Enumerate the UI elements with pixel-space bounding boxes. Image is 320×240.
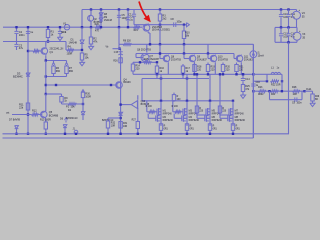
- svg-text:0R22: 0R22: [258, 94, 264, 96]
- svg-text:680: 680: [56, 70, 61, 73]
- svg-text:8R: 8R: [315, 99, 318, 101]
- svg-text:0R1: 0R1: [164, 128, 169, 130]
- svg-text:IRFP9240: IRFP9240: [163, 120, 174, 122]
- svg-text:IRFP9240: IRFP9240: [212, 120, 223, 122]
- svg-text:R32: R32: [111, 123, 116, 125]
- svg-text:220: 220: [136, 67, 141, 70]
- svg-text:BD139: BD139: [123, 82, 131, 84]
- svg-text:R15: R15: [144, 58, 149, 61]
- svg-text:C14: C14: [245, 78, 250, 81]
- svg-text:R 100: R 100: [172, 106, 179, 108]
- svg-text:R21: R21: [134, 30, 139, 32]
- svg-text:Q12: Q12: [141, 101, 146, 103]
- svg-text:R30: R30: [85, 93, 90, 96]
- svg-text:10R: 10R: [293, 94, 298, 96]
- svg-text:2k2: 2k2: [162, 17, 167, 20]
- svg-text:R23: R23: [258, 86, 263, 89]
- svg-text:22k: 22k: [19, 105, 24, 109]
- svg-text:out: out: [6, 111, 10, 114]
- svg-text:220: 220: [211, 68, 216, 71]
- svg-text:R24: R24: [271, 94, 276, 96]
- svg-text:BC546B: BC546B: [49, 114, 59, 117]
- svg-text:2SA1837: 2SA1837: [150, 58, 161, 61]
- svg-text:2SA1837: 2SA1837: [244, 59, 255, 62]
- svg-text:R28: R28: [292, 86, 297, 89]
- svg-text:10mA: 10mA: [258, 55, 265, 58]
- svg-text:R13 100R: R13 100R: [40, 119, 51, 122]
- svg-text:10R: 10R: [111, 125, 116, 127]
- svg-text:2SC3503: 2SC3503: [152, 26, 163, 29]
- svg-text:220: 220: [226, 68, 231, 71]
- svg-text:100R: 100R: [85, 96, 91, 98]
- svg-text:D7 BAV99: D7 BAV99: [9, 118, 21, 121]
- svg-text:47u: 47u: [19, 46, 24, 50]
- svg-text:R20: R20: [95, 24, 100, 26]
- svg-text:100n: 100n: [19, 33, 25, 37]
- svg-text:680: 680: [69, 70, 74, 73]
- svg-text:BZX84C: BZX84C: [13, 74, 23, 78]
- svg-text:R27: R27: [132, 119, 137, 121]
- svg-text:AC 1: AC 1: [61, 31, 67, 34]
- svg-text:IRFP9240: IRFP9240: [189, 120, 200, 122]
- svg-text:2SC4793: 2SC4793: [218, 59, 229, 62]
- svg-text:1N4148: 1N4148: [104, 20, 113, 22]
- svg-text:0R1: 0R1: [236, 128, 241, 130]
- svg-text:R8 330: R8 330: [123, 39, 131, 42]
- svg-text:IRFP9240: IRFP9240: [235, 120, 246, 122]
- svg-text:V1: V1: [63, 22, 67, 26]
- svg-text:0R1: 0R1: [190, 128, 195, 130]
- svg-text:10R: 10R: [123, 126, 128, 128]
- svg-text:R29: R29: [315, 96, 320, 98]
- svg-text:C15: C15: [114, 52, 119, 54]
- svg-text:BZX84C10: BZX84C10: [66, 118, 78, 120]
- svg-text:R22 10R: R22 10R: [271, 84, 281, 87]
- svg-text:Q6 2SC4793: Q6 2SC4793: [137, 49, 151, 52]
- svg-text:100p: 100p: [177, 21, 183, 23]
- svg-text:1N4148: 1N4148: [69, 41, 78, 44]
- svg-text:R 100: R 100: [146, 106, 153, 108]
- svg-text:0R1: 0R1: [213, 128, 218, 130]
- svg-text:220: 220: [239, 68, 244, 71]
- svg-text:2SA1837: 2SA1837: [197, 59, 208, 62]
- svg-text:Out1: Out1: [306, 88, 312, 91]
- svg-text:R31: R31: [123, 123, 128, 125]
- svg-text:2SC4793: 2SC4793: [171, 59, 182, 62]
- svg-text:C16: C16: [256, 82, 261, 84]
- svg-text:100R: 100R: [67, 52, 73, 55]
- svg-text:220: 220: [197, 68, 202, 71]
- svg-text:R12: R12: [32, 109, 37, 112]
- svg-text:R26: R26: [113, 60, 118, 62]
- svg-text:100n: 100n: [297, 103, 303, 105]
